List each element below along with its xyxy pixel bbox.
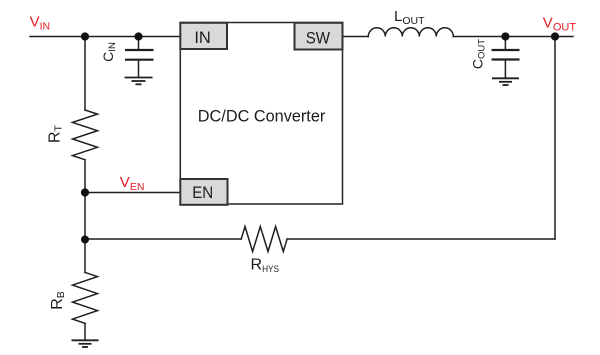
- resistor RHYS: [241, 227, 287, 252]
- pin box IN: [180, 23, 227, 49]
- wire CIN drop top: [138, 37, 140, 51]
- DC/DC converter block U1: [180, 23, 342, 205]
- wire CIN drop bottom: [138, 60, 140, 78]
- wire RT to RB: [84, 160, 86, 273]
- pin box SW: [295, 23, 343, 50]
- capacitor CIN: [125, 50, 154, 60]
- wire VEN to EN pin: [85, 192, 180, 194]
- resistor RT: [73, 110, 98, 160]
- wire VIN node down to RT: [84, 37, 86, 111]
- svg-text:EN: EN: [192, 183, 213, 202]
- wire RHYS to VOUT line: [287, 238, 555, 240]
- node VIN-RT junction: [81, 32, 89, 40]
- svg-text:DC/DC Converter: DC/DC Converter: [198, 106, 326, 125]
- capacitor COUT: [492, 50, 520, 60]
- wire VOUT vertical right: [554, 37, 556, 240]
- node VOUT junction: [551, 32, 559, 40]
- node RHYS junction: [81, 236, 89, 244]
- wire inductor to VOUT: [453, 36, 573, 38]
- node VEN junction: [81, 188, 89, 196]
- node COUT junction: [501, 32, 509, 40]
- wire node to RHYS: [85, 238, 241, 240]
- wire RB to ground: [84, 323, 86, 340]
- wire COUT drop bottom: [504, 60, 506, 79]
- svg-text:SW: SW: [306, 29, 330, 48]
- wire SW to inductor: [343, 36, 369, 38]
- wire COUT drop top: [504, 37, 506, 51]
- wire VIN to IN pin: [30, 36, 180, 38]
- inductor LOUT: [368, 28, 453, 37]
- ground under COUT: [492, 78, 519, 85]
- ground under RB: [72, 340, 99, 347]
- resistor RB: [73, 272, 98, 323]
- ground under CIN: [125, 78, 153, 85]
- pin box EN: [180, 179, 227, 205]
- svg-text:IN: IN: [194, 28, 211, 47]
- node CIN junction: [134, 32, 142, 40]
